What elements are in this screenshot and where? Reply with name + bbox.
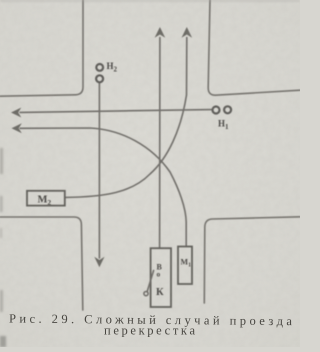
car M2 box (27, 191, 65, 206)
wire: K path line (straight up) (159, 38, 161, 248)
arrowhead H2 (down) (94, 257, 104, 268)
car M1 box (178, 247, 192, 285)
arrowhead K (up) (155, 27, 166, 38)
wire: M1 path line (left turn from bottom to west) (20, 128, 186, 246)
car K box (151, 248, 171, 307)
motorcycle H1 wheels (213, 106, 232, 113)
arrowhead M2 (up) (182, 27, 193, 38)
curb block bottom-right (204, 217, 300, 303)
curb block top-right (208, 0, 300, 95)
wire: M2 path line (left turn from west to north) (65, 38, 187, 198)
motorcycle H2 wheels (96, 64, 103, 82)
arrowhead H1 (left) (11, 108, 21, 118)
wire: H1 path line (straight left) (20, 110, 212, 113)
callout leader to K (147, 271, 153, 292)
wire: pedestrian H2 path line (straight down) (98, 83, 100, 258)
curb block bottom-left (0, 217, 83, 310)
callout circle (144, 292, 148, 296)
arrowhead M1 (left) (12, 123, 22, 133)
curb block top-left (0, 0, 83, 96)
